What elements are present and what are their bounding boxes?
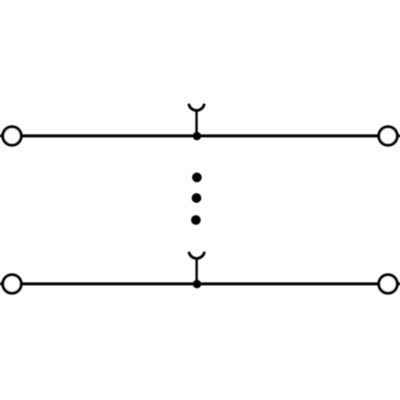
wire tap stem top bbox=[195, 110, 197, 136]
junction dot top bbox=[193, 132, 201, 140]
junction dot bottom bbox=[193, 280, 201, 288]
ellipsis dot 3 bbox=[191, 215, 201, 225]
terminal circle top-right bbox=[379, 127, 397, 145]
wire tap stem bottom bbox=[195, 258, 197, 284]
terminal circle top-left bbox=[3, 127, 21, 145]
terminal circle bottom-right bbox=[379, 275, 397, 293]
wire bottom rail bbox=[0, 282, 400, 285]
test socket cup top bbox=[189, 105, 204, 111]
wire top rail bbox=[0, 134, 400, 137]
terminal circle bottom-left bbox=[3, 275, 21, 293]
ellipsis dot 2 bbox=[192, 193, 202, 203]
test socket cup bottom bbox=[189, 253, 204, 259]
ellipsis dot 1 bbox=[192, 173, 202, 183]
